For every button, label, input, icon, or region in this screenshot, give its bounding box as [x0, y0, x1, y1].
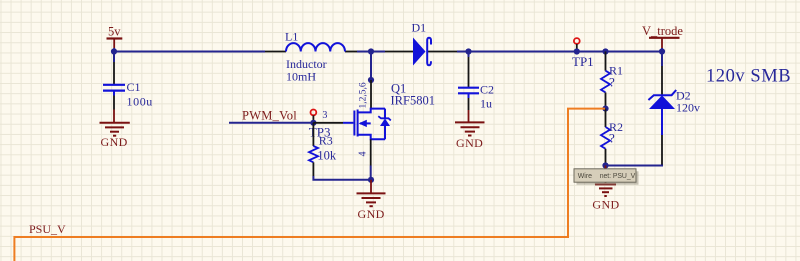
- ground at R2 bottom: [592, 166, 619, 212]
- net label PWM_Vol: [242, 109, 297, 123]
- wire main top rail navy segment left: [114, 51, 265, 53]
- ground at C1: [100, 110, 130, 150]
- node junction R1/R2/PSU_V: [602, 106, 608, 112]
- svg-text:C1: C1: [127, 80, 141, 94]
- wire PWM_Vol: [229, 122, 313, 124]
- diode D1: [412, 21, 432, 66]
- test point TP3: [309, 110, 331, 140]
- svg-text:100u: 100u: [127, 95, 153, 109]
- svg-text:120v: 120v: [676, 101, 700, 115]
- net label PSU_V: [29, 222, 66, 236]
- svg-text:TP1: TP1: [572, 54, 594, 69]
- transistor Q1: [343, 82, 435, 140]
- svg-text:?: ?: [609, 131, 615, 146]
- wire PSU_V (orange net): [14, 109, 605, 261]
- svg-text:5v: 5v: [108, 25, 121, 39]
- svg-text:1u: 1u: [480, 97, 492, 111]
- resistor R3: [309, 123, 337, 176]
- wire R3 bottom to source rail: [313, 176, 371, 180]
- svg-text:V_trode: V_trode: [642, 24, 683, 38]
- svg-text:GND: GND: [456, 136, 483, 150]
- svg-text:?: ?: [609, 75, 615, 90]
- svg-text:GND: GND: [358, 207, 385, 221]
- wire L1 left pin (black): [265, 51, 286, 53]
- svg-text:GND: GND: [592, 198, 619, 212]
- svg-text:4: 4: [358, 152, 369, 157]
- node junction R1 top: [602, 48, 608, 54]
- pin number 4 of Q1: [358, 152, 369, 157]
- node junction 5v/C1: [111, 48, 117, 54]
- svg-text:10k: 10k: [317, 149, 337, 163]
- wire drain vertical navy: [370, 52, 372, 81]
- wire D1 anode pin (black): [385, 51, 413, 53]
- node junction R2 bottom: [602, 162, 608, 168]
- wire Q1 source pin (black): [370, 139, 372, 165]
- inductor L1: [285, 30, 345, 84]
- svg-text:C2: C2: [480, 83, 494, 97]
- zener diode D2: [648, 52, 700, 165]
- wire L1 right pin (black): [345, 51, 357, 53]
- svg-text:PWM_Vol: PWM_Vol: [242, 109, 297, 123]
- node junction C2 top: [465, 48, 471, 54]
- svg-text:R3: R3: [319, 134, 333, 148]
- svg-text:IRF5801: IRF5801: [391, 94, 435, 108]
- capacitor C2: [458, 52, 494, 111]
- wire C1 top stub navy: [113, 52, 115, 63]
- svg-text:120v SMB: 120v SMB: [706, 67, 791, 87]
- node junction V_trode/D2: [659, 48, 665, 54]
- ground at Q1 source: [357, 180, 386, 221]
- svg-text:Wire: Wire: [578, 173, 592, 180]
- node junction TP1: [574, 48, 580, 54]
- wire Q1 gate pin (black): [313, 122, 343, 124]
- svg-text:PSU_V: PSU_V: [29, 222, 66, 236]
- wire R2 bottom to D2 anode: [606, 164, 663, 166]
- wire navy segment at drain junction: [357, 51, 385, 53]
- svg-text:3: 3: [322, 110, 327, 121]
- node junction drain pin: [368, 77, 374, 83]
- svg-text:net: PSU_V: net: PSU_V: [600, 173, 636, 180]
- node junction Q1 source/ground: [368, 177, 374, 183]
- svg-text:L1: L1: [285, 30, 298, 44]
- pin numbers 1,2,5,6 of Q1: [359, 82, 369, 108]
- test point TP1: [572, 38, 594, 69]
- node junction at Q1 drain column: [368, 48, 374, 54]
- wire Q1 drain pin (black): [370, 80, 372, 109]
- resistor R2: [601, 109, 623, 166]
- power port 5v: [107, 25, 123, 52]
- wire main top rail navy segment right: [457, 51, 662, 53]
- wire D1 cathode pin (black): [428, 51, 457, 53]
- pin number 3 of Q1: [322, 110, 327, 121]
- ground at C2: [455, 110, 485, 150]
- power port V_trode: [642, 24, 683, 52]
- wire source to ground rail navy: [370, 166, 372, 180]
- resistor R1: [601, 52, 623, 109]
- text 120v SMB: [706, 67, 791, 87]
- svg-text:GND: GND: [101, 135, 128, 149]
- svg-text:1,2,5,6: 1,2,5,6: [359, 82, 369, 108]
- tooltip Wire net: PSU_V: [574, 169, 639, 185]
- svg-text:D1: D1: [412, 21, 427, 35]
- node junction TP3/R3/gate: [310, 120, 316, 126]
- capacitor C1: [103, 62, 153, 110]
- svg-text:10mH: 10mH: [286, 69, 316, 83]
